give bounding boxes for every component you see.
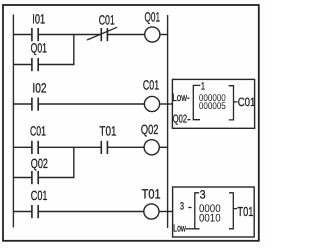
svg-text:C01: C01 [238, 95, 256, 109]
wire rung2 right [38, 103, 144, 105]
contact T01 [101, 141, 107, 154]
timer left bracket [195, 193, 200, 229]
svg-text:T01: T01 [237, 204, 253, 219]
svg-text:I02: I02 [32, 81, 46, 96]
svg-text:3: 3 [200, 188, 206, 202]
outer frame [3, 5, 259, 241]
svg-text:Q02: Q02 [141, 122, 159, 137]
counter block C01 [172, 79, 254, 128]
timer output dash [233, 208, 237, 210]
timer block T01 [173, 187, 255, 237]
counter reset dash [187, 119, 190, 121]
wire rung4 left [13, 211, 31, 213]
contact Q02 [32, 171, 38, 184]
contact Q01 [32, 58, 38, 71]
timer right bracket [229, 193, 233, 229]
svg-text:1: 1 [201, 80, 205, 92]
coil Q01 [145, 27, 160, 42]
wire rung2 left [13, 103, 31, 105]
svg-text:3: 3 [180, 201, 184, 213]
wire branch2 left [13, 177, 31, 179]
coil Q02 [144, 140, 159, 155]
branch2 vertical [73, 147, 75, 178]
left power rail [12, 15, 14, 228]
svg-text:Q02: Q02 [173, 113, 187, 125]
counter left bracket [193, 85, 200, 119]
wire branch1 right [38, 64, 74, 66]
contact C01 rung3 [32, 141, 38, 154]
wire coil Q01 to rail [160, 34, 168, 36]
svg-text:Q01: Q01 [31, 40, 47, 55]
svg-text:C01: C01 [31, 188, 48, 203]
svg-text:T01: T01 [142, 187, 161, 202]
wire rung1 right [107, 34, 144, 36]
coil C01 [144, 96, 159, 111]
counter output dash [234, 101, 238, 103]
wire stub into timer block [168, 211, 174, 213]
wire coil C01 to rail [160, 103, 168, 105]
svg-text:Q01: Q01 [145, 9, 161, 24]
right power rail [167, 15, 169, 228]
contact C01 rung4 [32, 205, 38, 218]
wire rung4 right [38, 211, 144, 213]
wire stub into counter block [168, 103, 173, 105]
wire branch1 left [13, 64, 31, 66]
wire coil T01 to rail [159, 211, 168, 213]
svg-text:Low-: Low- [172, 92, 189, 104]
wire rung1 mid [38, 34, 101, 36]
coil T01 [144, 204, 159, 219]
wire rung3 left [13, 146, 31, 148]
svg-text:T01: T01 [99, 124, 116, 139]
svg-text:I01: I01 [32, 11, 45, 26]
svg-text:0010: 0010 [199, 213, 221, 225]
counter right bracket [229, 86, 234, 120]
contact I02 [32, 98, 38, 111]
svg-text:C01: C01 [30, 123, 46, 138]
contact I01 [32, 28, 38, 41]
wire branch2 right [38, 177, 74, 179]
timer low connector [186, 228, 195, 230]
svg-text:C01: C01 [143, 78, 159, 93]
svg-text:Low: Low [173, 224, 186, 235]
timer input dash [188, 207, 191, 209]
wire rung1 left [13, 34, 31, 36]
wire rung3 right [107, 146, 144, 148]
branch1 vertical [73, 35, 75, 66]
wire rung3 mid [38, 146, 101, 148]
svg-text:Q02: Q02 [31, 156, 48, 171]
wire coil Q02 to rail [159, 146, 167, 148]
svg-text:C01: C01 [99, 13, 115, 28]
contact C01 (NC) [87, 27, 117, 41]
svg-text:000005: 000005 [199, 101, 226, 112]
